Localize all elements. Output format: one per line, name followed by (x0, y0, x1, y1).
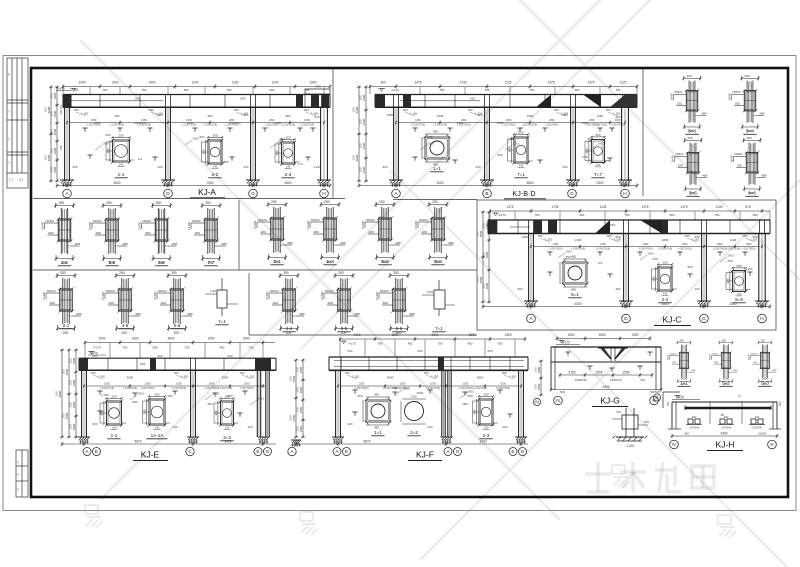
svg-text:1-150(7Φ18): 1-150(7Φ18) (100, 387, 114, 390)
svg-text:1595415: 1595415 (575, 378, 587, 382)
svg-text:1-150(7Φ18): 1-150(7Φ18) (501, 124, 515, 127)
svg-text:600: 600 (74, 108, 79, 112)
svg-text:1800: 1800 (55, 391, 58, 397)
svg-text:5-35: 5-35 (427, 290, 433, 294)
svg-text:1-150(7Φ18): 1-150(7Φ18) (658, 248, 672, 251)
svg-text:140: 140 (663, 291, 668, 295)
section detail 2-3 (479, 399, 493, 425)
column section detail 6=6 (414, 200, 454, 264)
frame KJ-E (55, 337, 276, 461)
svg-text:1400: 1400 (207, 337, 214, 341)
svg-text:1-150(7Φ18): 1-150(7Φ18) (300, 124, 314, 127)
svg-text:|-|: |-| (17, 460, 20, 464)
svg-text:1800: 1800 (69, 358, 72, 364)
svg-text:1!: 1! (738, 394, 741, 398)
bottom dimension line (359, 185, 637, 187)
column bases (524, 300, 538, 302)
svg-text:1400: 1400 (485, 222, 489, 229)
svg-text:2Φ16: 2Φ16 (258, 397, 265, 401)
svg-text:200: 200 (778, 401, 782, 406)
svg-text:G: G (251, 191, 255, 197)
svg-text:600: 600 (286, 114, 291, 118)
svg-text:1=1: 1=1 (433, 166, 441, 171)
svg-text:140: 140 (286, 164, 291, 168)
svg-text:1800: 1800 (362, 118, 366, 125)
svg-text:1-150: 1-150 (98, 375, 106, 379)
svg-text:2-3: 2-3 (285, 172, 292, 177)
svg-text:300: 300 (275, 150, 279, 155)
stirrup details (688, 419, 693, 424)
column G (570, 107, 572, 181)
roof beam (63, 94, 330, 96)
svg-text:4-170: 4-170 (348, 342, 356, 346)
svg-text:1050: 1050 (549, 118, 555, 122)
svg-text:1400: 1400 (362, 94, 366, 101)
svg-text:900: 900 (382, 165, 387, 169)
mid ticks (709, 402, 711, 424)
svg-text:1-150: 1-150 (545, 238, 553, 242)
svg-text:2Φ16: 2Φ16 (566, 250, 573, 254)
column section detail 5-5 (320, 271, 360, 335)
small chain between KJ-F and KJ-G (533, 360, 543, 406)
svg-text:1800: 1800 (299, 366, 303, 373)
svg-text:6=6: 6=6 (748, 191, 756, 196)
svg-text:5=3: 5=3 (761, 381, 769, 386)
svg-text:1-150(7Φ18): 1-150(7Φ18) (523, 124, 537, 127)
svg-text:140: 140 (119, 162, 124, 166)
svg-text:|-|: |-| (17, 487, 20, 491)
svg-text:E: E (511, 449, 514, 455)
grid bubbles (670, 440, 679, 449)
svg-text:1800: 1800 (72, 379, 76, 386)
svg-text:2Φ3: 2Φ3 (140, 362, 146, 366)
svg-text:1-150(7Φ18): 1-150(7Φ18) (610, 124, 624, 127)
svg-text:1595: 1595 (622, 370, 629, 374)
column section detail 4-4 (265, 271, 305, 335)
section cut T marks (97, 390, 102, 392)
svg-text:4500: 4500 (65, 368, 69, 375)
svg-text:250: 250 (662, 260, 667, 264)
section detail 1-1 (113, 140, 130, 162)
svg-text:1-150: 1-150 (750, 238, 758, 242)
roof beam (79, 357, 276, 359)
svg-text:5670: 5670 (134, 440, 141, 444)
svg-text:2Φ3: 2Φ3 (240, 96, 246, 100)
svg-text:1-150: 1-150 (410, 112, 418, 116)
svg-text:4 7: 4 7 (19, 178, 24, 182)
svg-text:KJ-E: KJ-E (141, 450, 160, 460)
svg-text:700: 700 (616, 410, 621, 414)
outer thin border (3, 56, 796, 511)
svg-text:600: 600 (403, 108, 408, 112)
svg-text:|-|: |-| (17, 472, 20, 476)
svg-text:300: 300 (100, 410, 104, 415)
svg-text:1A-1A: 1A-1A (151, 433, 165, 438)
section detail 2-2 (circle) (405, 402, 424, 421)
svg-text:750: 750 (530, 88, 535, 92)
svg-text:400: 400 (755, 415, 760, 419)
svg-text:650: 650 (227, 394, 232, 398)
svg-text:1100: 1100 (232, 81, 239, 85)
column D (165, 107, 167, 181)
svg-text:400: 400 (172, 425, 177, 429)
svg-text:450: 450 (580, 213, 585, 217)
svg-text:1-150(7Φ18): 1-150(7Φ18) (571, 248, 585, 251)
svg-text:2Φ16: 2Φ16 (193, 137, 200, 141)
svg-text:1050: 1050 (662, 238, 669, 242)
bottom dimension line (551, 389, 661, 391)
beam corner braces (536, 95, 551, 108)
svg-text:4500: 4500 (127, 376, 134, 380)
svg-text:1800: 1800 (62, 369, 65, 375)
svg-text:7-7: 7-7 (208, 260, 215, 265)
svg-text:1800: 1800 (362, 166, 366, 173)
svg-text:1-150(7Φ18): 1-150(7Φ18) (239, 387, 253, 390)
svg-text:1800: 1800 (53, 92, 57, 99)
svg-text:5=4: 5=4 (746, 129, 754, 134)
svg-text:1904208: 1904208 (752, 426, 763, 430)
svg-text:140: 140 (112, 425, 117, 429)
column H (320, 107, 322, 181)
svg-text:2Φ16: 2Φ16 (103, 142, 110, 146)
svg-text:1050: 1050 (209, 382, 215, 386)
svg-text:875: 875 (745, 205, 751, 209)
svg-text:1735: 1735 (459, 81, 466, 85)
small column detail 7-1 (434, 290, 445, 309)
svg-text:450: 450 (184, 88, 189, 92)
svg-text:300: 300 (585, 148, 589, 153)
svg-text:750: 750 (227, 88, 232, 92)
svg-text:650: 650 (727, 259, 732, 263)
extra leader marks (95, 137, 734, 406)
svg-text:250: 250 (747, 267, 752, 271)
column section detail 5=3 (670, 74, 707, 133)
column section detail 5=3 (749, 340, 778, 387)
section detail 2-3 (282, 142, 295, 164)
svg-text:| |: | | (8, 137, 10, 141)
svg-text:1-150: 1-150 (475, 112, 483, 116)
svg-text:1050: 1050 (304, 118, 310, 122)
svg-text:400: 400 (502, 425, 507, 429)
svg-text:1400: 1400 (148, 81, 155, 85)
svg-text:7=2: 7=2 (223, 160, 228, 164)
column section detail 6=6 (730, 136, 767, 195)
column G (701, 234, 703, 303)
svg-text:4000: 4000 (355, 154, 359, 161)
svg-text:1800: 1800 (72, 357, 76, 364)
svg-text:1-150(7Φ18): 1-150(7Φ18) (123, 387, 137, 390)
bottom-left register strip (16, 450, 28, 497)
svg-text:300: 300 (472, 409, 476, 414)
svg-text:4-4: 4-4 (61, 260, 68, 265)
svg-text:1050: 1050 (717, 242, 723, 246)
svg-text:4000: 4000 (47, 154, 51, 161)
svg-text:1-150(7Φ18): 1-150(7Φ18) (172, 387, 186, 390)
svg-text:1=1: 1=1 (374, 430, 382, 435)
svg-text:650: 650 (199, 135, 204, 139)
svg-text:4500: 4500 (222, 376, 229, 380)
svg-text:1800: 1800 (296, 426, 299, 432)
svg-text:5=1: 5=1 (571, 292, 579, 297)
svg-text:1-150(7Φ18): 1-150(7Φ18) (638, 248, 652, 251)
svg-text:1-150(7Φ18): 1-150(7Φ18) (677, 248, 691, 251)
column section detail 4=4 (306, 200, 346, 264)
svg-text:| |: | | (8, 160, 10, 164)
details above KJ-H (668, 340, 778, 387)
svg-text:7500: 7500 (206, 181, 213, 185)
svg-text:2Φ3: 2Φ3 (610, 223, 616, 227)
svg-text:1300: 1300 (504, 333, 511, 337)
watermark big logo bottom right (585, 462, 714, 492)
section detail 1A-1A (149, 399, 165, 425)
svg-text:H: H (623, 191, 627, 197)
svg-text:1-150(7Φ18): 1-150(7Φ18) (712, 248, 726, 251)
svg-text:600: 600 (149, 108, 154, 112)
svg-text:140: 140 (213, 164, 218, 168)
svg-text:1800: 1800 (359, 143, 362, 149)
svg-text:D: D (624, 316, 628, 322)
section cut T marks (547, 251, 552, 253)
svg-text:256: 256 (582, 155, 587, 159)
svg-text:1475: 1475 (506, 205, 513, 209)
svg-text:250: 250 (644, 420, 649, 424)
svg-text:2-2: 2-2 (598, 261, 603, 265)
T marks (565, 351, 570, 353)
svg-text:4500: 4500 (292, 375, 296, 382)
svg-text:750: 750 (185, 346, 190, 350)
joint annotation clusters (70, 89, 758, 399)
svg-text:10050(2): 10050(2) (229, 121, 241, 125)
svg-text:1050: 1050 (589, 118, 595, 122)
svg-text:650: 650 (587, 137, 592, 141)
column H (621, 107, 623, 181)
svg-text:1-150(7Φ18): 1-150(7Φ18) (110, 124, 124, 127)
column section detail 5=4 (728, 74, 765, 133)
svg-text:600: 600 (743, 234, 748, 238)
svg-text:2-3: 2-3 (483, 433, 490, 438)
svg-text:2300: 2300 (596, 181, 603, 185)
svg-text:140: 140 (225, 425, 230, 429)
svg-text:1375: 1375 (587, 81, 594, 85)
column bases (389, 179, 403, 181)
svg-text:4200: 4200 (355, 106, 359, 113)
beam bottom chord (551, 361, 661, 363)
svg-text:1800: 1800 (72, 401, 76, 408)
svg-text:1375: 1375 (547, 81, 554, 85)
svg-text:250: 250 (497, 153, 502, 157)
svg-text:1800: 1800 (485, 282, 489, 289)
svg-text:1800: 1800 (359, 119, 362, 125)
svg-text:1-150: 1-150 (431, 375, 439, 379)
svg-text:650: 650 (357, 394, 362, 398)
roof beam (488, 219, 770, 221)
svg-text:4Φ4: 4Φ4 (207, 402, 213, 406)
left vertical dimension chain (488, 212, 490, 302)
column section detail 5=5 (361, 200, 401, 264)
svg-text:D: D (166, 191, 170, 197)
svg-text:4000: 4000 (574, 302, 581, 306)
level marks (72, 89, 75, 92)
svg-text:1800: 1800 (296, 407, 299, 413)
svg-text:1050: 1050 (506, 118, 512, 122)
svg-text:1-150: 1-150 (247, 375, 255, 379)
deep roof girder (329, 356, 528, 358)
svg-text:1-150(7Φ18): 1-150(7Φ18) (544, 124, 558, 127)
svg-text:600: 600 (208, 114, 213, 118)
svg-text:1500: 1500 (598, 333, 605, 337)
column section detail 2-1 (42, 271, 82, 335)
center brace (600, 348, 612, 359)
svg-text:6-6: 6-6 (396, 326, 403, 331)
svg-text:1050: 1050 (463, 382, 469, 386)
column D (623, 234, 625, 303)
svg-text:1800: 1800 (289, 415, 292, 421)
svg-text:140: 140 (596, 163, 601, 167)
svg-text:450: 450 (468, 342, 473, 346)
svg-text:1345: 1345 (457, 121, 464, 125)
svg-text:1050: 1050 (176, 382, 182, 386)
svg-text:9000: 9000 (58, 390, 62, 397)
svg-text:1475: 1475 (414, 81, 421, 85)
grid bubbles (392, 189, 401, 198)
svg-text:1-150: 1-150 (101, 393, 109, 397)
svg-text:1-1: 1-1 (111, 433, 118, 438)
bottom dimension line (483, 306, 770, 308)
svg-text:750: 750 (535, 213, 540, 217)
svg-text:4300: 4300 (602, 385, 609, 389)
svg-text:400: 400 (724, 415, 729, 419)
svg-text:600: 600 (502, 371, 507, 375)
svg-text:400: 400 (243, 165, 248, 169)
svg-text:450: 450 (220, 346, 225, 350)
svg-text:250: 250 (518, 130, 523, 134)
svg-text:1735: 1735 (551, 205, 558, 209)
middle band row 2 right details (265, 271, 455, 335)
beam top line (672, 401, 777, 403)
svg-text:300: 300 (142, 409, 146, 414)
svg-text:1375: 1375 (641, 205, 648, 209)
svg-text:750: 750 (438, 342, 443, 346)
svg-text:1050: 1050 (275, 121, 282, 125)
svg-text:4-170: 4-170 (562, 341, 570, 345)
svg-text:450: 450 (270, 88, 275, 92)
svg-text:600: 600 (174, 371, 179, 375)
svg-text:2Φ0: 2Φ0 (315, 85, 321, 89)
svg-text:KJ-B·D: KJ-B·D (512, 189, 535, 198)
svg-text:650: 650 (227, 354, 232, 358)
section detail 1-1 (square with bar circle) (422, 130, 451, 167)
column left (335, 370, 337, 437)
frame KJ-B-D (352, 81, 638, 199)
svg-text:1-150: 1-150 (614, 238, 622, 242)
svg-text:360: 360 (380, 81, 386, 85)
svg-text:2Φ16: 2Φ16 (513, 142, 520, 146)
svg-text:900: 900 (72, 165, 77, 169)
svg-text:1800: 1800 (69, 380, 72, 386)
svg-text:140: 140 (737, 292, 742, 296)
svg-text:1-150: 1-150 (561, 112, 569, 116)
svg-text:450: 450 (753, 213, 758, 217)
section detail 2-2 (208, 140, 222, 164)
svg-text:900: 900 (517, 287, 522, 291)
svg-text:2Φ3: 2Φ3 (135, 96, 141, 100)
svg-text:1800: 1800 (53, 147, 57, 154)
svg-text:1400: 1400 (78, 81, 85, 85)
svg-text:400: 400 (427, 425, 432, 429)
section detail 1-1 (107, 401, 122, 425)
svg-text:400: 400 (692, 415, 697, 419)
section detail 5-5 (733, 271, 746, 292)
section detail 7-7 (592, 140, 605, 163)
svg-text:750: 750 (123, 346, 128, 350)
svg-text:1-150(7Φ18): 1-150(7Φ18) (281, 124, 295, 127)
column G (250, 107, 252, 181)
svg-text:1-150(7Φ18): 1-150(7Φ18) (726, 248, 740, 251)
middle band row 1 right details (253, 200, 454, 265)
svg-text:1-150: 1-150 (241, 112, 249, 116)
svg-text:1-150: 1-150 (509, 375, 517, 379)
svg-text:300: 300 (651, 276, 655, 281)
svg-text:H: H (760, 316, 764, 322)
svg-text:250: 250 (111, 394, 116, 398)
svg-text:1050: 1050 (104, 382, 110, 386)
svg-text:650: 650 (105, 133, 110, 137)
svg-text:400: 400 (615, 287, 620, 291)
section cut T marks (82, 127, 87, 129)
column section detail 7-7 (187, 201, 227, 265)
svg-text:250: 250 (285, 135, 290, 139)
svg-text:450: 450 (485, 88, 490, 92)
svg-text:750: 750 (249, 346, 254, 350)
svg-text:1-1: 1-1 (118, 172, 125, 177)
svg-text:250: 250 (154, 392, 159, 396)
svg-text:LΦ0-400: LΦ0-400 (59, 104, 63, 115)
svg-text:10050(2): 10050(2) (134, 121, 146, 125)
svg-text:400: 400 (157, 165, 162, 169)
svg-text:1800: 1800 (69, 402, 72, 408)
svg-text:4=4: 4=4 (326, 259, 334, 264)
svg-text:1050: 1050 (145, 382, 151, 386)
column section detail 5-5 (88, 201, 128, 265)
grid bubbles (333, 448, 341, 456)
svg-text:450: 450 (575, 88, 580, 92)
frame KJ-A (44, 81, 331, 198)
svg-text:1800: 1800 (289, 376, 292, 382)
svg-text:N: N (535, 400, 539, 406)
svg-text:G: G (521, 449, 525, 455)
svg-text:N: N (556, 398, 560, 404)
svg-text:1800: 1800 (476, 231, 479, 237)
svg-text:1050: 1050 (430, 382, 436, 386)
svg-text:1800: 1800 (44, 155, 47, 161)
svg-text:1800: 1800 (359, 95, 362, 101)
svg-text:600: 600 (685, 234, 690, 238)
svg-text:1400: 1400 (353, 333, 360, 337)
svg-text:2Φ16: 2Φ16 (728, 254, 735, 258)
svg-text:750: 750 (378, 342, 383, 346)
svg-text:T=7: T=7 (594, 172, 602, 177)
top dimension row (340, 338, 525, 340)
svg-text:G: G (702, 316, 706, 322)
column right (518, 370, 520, 437)
column section detail 2=1 (253, 200, 293, 264)
section detail 7-1 (514, 137, 528, 163)
svg-text:450: 450 (670, 213, 675, 217)
svg-text:2Φ3: 2Φ3 (470, 96, 476, 100)
end drops (671, 402, 673, 429)
svg-text:5=5: 5=5 (689, 191, 697, 196)
grid bubbles (554, 396, 563, 405)
